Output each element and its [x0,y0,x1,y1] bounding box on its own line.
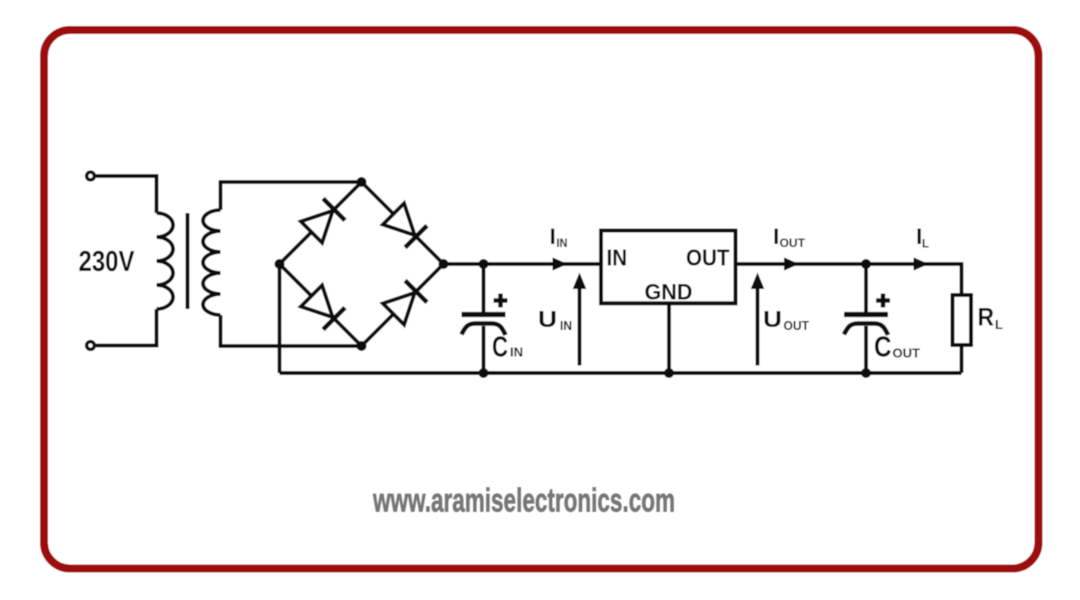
svg-text:OUT: OUT [893,346,921,361]
capacitor Cin curved plate [462,324,506,336]
junction bridge bottom node [357,341,367,351]
svg-text:230V: 230V [79,246,136,278]
current arrow IL [914,257,929,270]
junction Cout top [861,259,871,269]
junction Cout bottom [861,368,871,378]
wire: primary bottom lead [96,309,157,346]
junction bridge top node [357,177,367,187]
svg-text:OUT: OUT [686,245,730,271]
svg-text:U: U [763,306,782,332]
svg-text:L: L [995,317,1003,332]
wire: bridge negative node down to ground rail [278,264,282,373]
svg-text:IN: IN [510,345,523,360]
junction GND pin on rail [664,368,674,378]
wire: regulator OUT to load [736,264,962,294]
svg-text:IN: IN [557,238,568,250]
wire: secondary top to bridge top node [221,182,362,210]
wire: GND pin to ground rail [667,303,671,373]
svg-text:C: C [874,332,892,364]
label RL [978,304,1004,333]
wire: primary top lead [96,176,157,213]
wire: DC positive rail (bridge to regulator IN) [444,262,602,266]
transformer T1 secondary winding [203,210,221,315]
label Uin [538,306,572,333]
capacitor Cin plus sign [494,294,508,308]
svg-text:R: R [978,304,995,332]
capacitor Cout plus sign [876,294,890,308]
voltage arrow Uin [573,273,587,366]
svg-text:U: U [538,306,557,332]
terminal: AC input top [87,172,95,180]
svg-text:C: C [492,332,508,364]
diode D1 (left-top) [301,199,345,243]
capacitor Cout top plate [844,312,888,317]
transformer T1 core [186,213,190,309]
current arrow Iout [784,257,799,270]
transformer T1 primary winding [157,213,174,309]
wire: Cin leads [482,264,486,373]
svg-text:www.aramiselectronics.com: www.aramiselectronics.com [372,483,675,520]
wire: secondary bottom to bridge bottom node [221,315,362,346]
junction bridge left node [275,259,285,269]
wire: Cout leads [864,264,868,373]
svg-text:I: I [773,224,779,249]
label Iin [550,224,568,250]
svg-text:OUT: OUT [780,238,806,250]
diode D2 (top-right) [383,203,427,247]
label Cin [492,332,523,364]
label Iout [773,224,805,250]
diode D3 (left-bottom) [301,285,345,329]
resistor RL [953,295,972,345]
label Uout [763,306,809,333]
capacitor Cin top plate [462,312,506,317]
svg-text:GND: GND [645,280,693,305]
regulator U1 box [601,231,736,304]
junction Cin bottom [479,368,489,378]
svg-text:L: L [922,239,929,251]
label Cout [874,332,920,364]
capacitor Cout curved plate [844,324,888,336]
voltage arrow Uout [751,273,765,366]
junction Cin top [479,259,489,269]
svg-text:OUT: OUT [784,319,810,333]
svg-text:IN: IN [560,319,572,333]
terminal: AC input bottom [87,342,95,350]
bridge rectifier diamond wires [280,182,444,346]
svg-text:I: I [550,224,556,249]
diode D4 (bottom-right) [383,281,427,325]
junction bridge right node [439,259,449,269]
current arrow Iin [553,257,568,270]
wire: RL bottom lead [960,345,964,373]
svg-text:IN: IN [607,245,628,271]
label IL [916,224,929,251]
wire: ground rail [280,371,962,375]
